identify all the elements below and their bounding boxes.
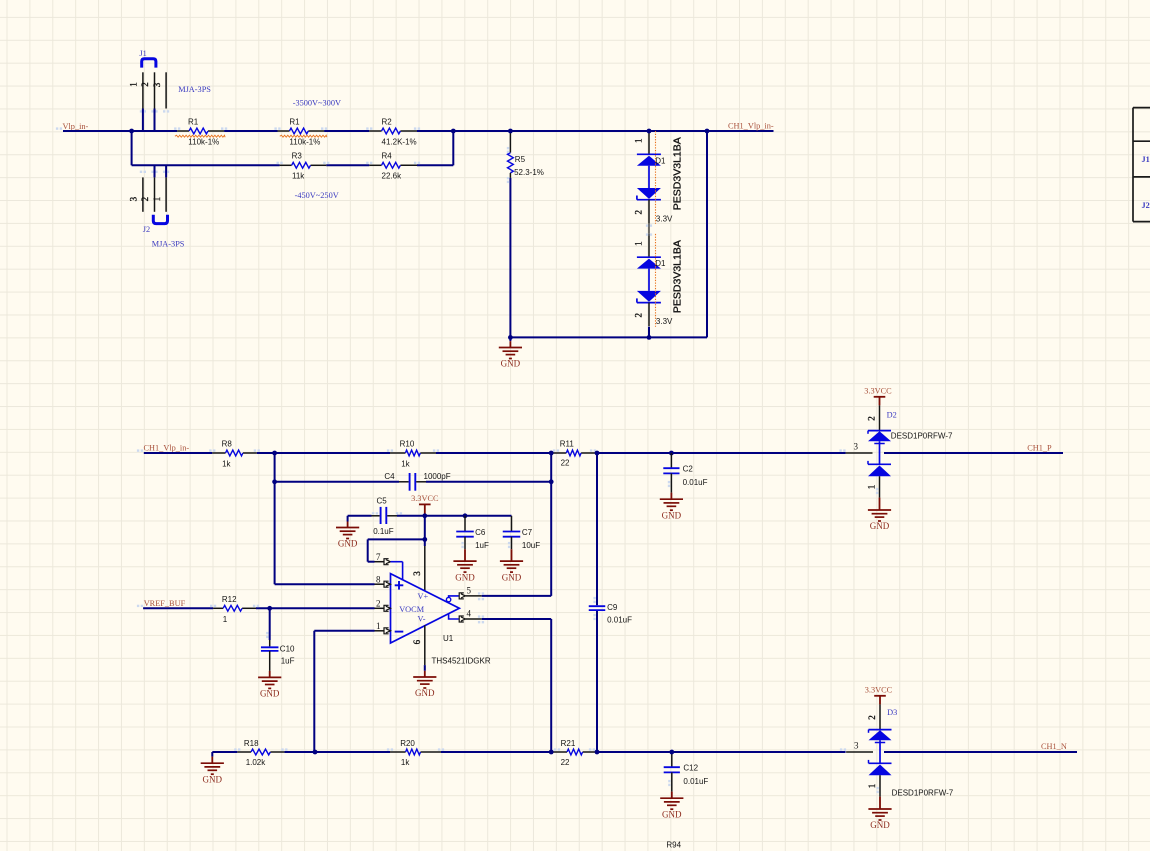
svg-text:8: 8 [376,575,381,585]
svg-text:GND: GND [260,689,280,699]
svg-text:R3: R3 [292,152,303,161]
svg-text:22.6k: 22.6k [382,172,403,181]
svg-text:D3: D3 [887,708,897,717]
svg-text:V+: V+ [418,592,429,601]
svg-text:THS4521IDGKR: THS4521IDGKR [432,657,491,666]
svg-text:1k: 1k [401,459,410,468]
svg-text:R8: R8 [222,439,233,448]
svg-text:R20: R20 [400,739,415,748]
svg-text:VOCM: VOCM [399,605,425,614]
svg-text:C10: C10 [280,645,295,654]
svg-text:R4: R4 [382,152,393,161]
svg-text:D1: D1 [655,259,666,268]
svg-text:C4: C4 [384,472,395,481]
svg-text:C5: C5 [377,497,388,506]
svg-text:R1: R1 [188,118,199,127]
svg-text:U1: U1 [443,634,454,643]
svg-text:41.2K-1%: 41.2K-1% [382,137,417,146]
svg-text:10uF: 10uF [522,541,540,550]
svg-text:R18: R18 [244,739,259,748]
svg-text:1: 1 [376,621,381,631]
svg-text:1: 1 [634,241,644,246]
svg-text:3: 3 [854,442,859,452]
svg-text:-3500V~300V: -3500V~300V [293,99,341,108]
svg-text:CH1_P: CH1_P [1027,443,1052,452]
svg-text:J1: J1 [139,49,146,58]
svg-text:2: 2 [376,599,381,609]
svg-text:R94: R94 [666,841,681,850]
svg-text:3.3VCC: 3.3VCC [411,494,439,503]
svg-text:MJA-3PS: MJA-3PS [178,85,211,94]
svg-text:GND: GND [662,510,682,520]
svg-text:3: 3 [129,196,139,201]
svg-text:11k: 11k [292,172,305,181]
svg-text:GND: GND [870,521,890,531]
svg-text:110k-1%: 110k-1% [188,137,219,146]
svg-text:22: 22 [561,459,570,468]
svg-text:6: 6 [412,639,422,644]
svg-text:VREF_BUF: VREF_BUF [144,599,186,608]
svg-text:C6: C6 [475,528,486,537]
svg-text:CH1_Vlp_in-: CH1_Vlp_in- [144,443,190,452]
svg-text:J1: J1 [1142,155,1150,164]
svg-text:1000pF: 1000pF [424,472,451,481]
svg-text:GND: GND [501,359,521,369]
svg-text:C7: C7 [522,528,533,537]
svg-text:Vlp_in-: Vlp_in- [63,122,89,131]
svg-text:C9: C9 [607,603,618,612]
svg-text:C12: C12 [683,764,698,773]
svg-text:3.3V: 3.3V [656,214,673,223]
svg-text:C2: C2 [683,465,694,474]
svg-text:GND: GND [415,688,435,698]
svg-text:1: 1 [867,784,877,789]
svg-text:3: 3 [412,571,422,576]
svg-text:CH1_Vlp_in-: CH1_Vlp_in- [728,121,774,130]
svg-text:MJA-3PS: MJA-3PS [152,239,185,248]
svg-text:1: 1 [223,615,228,624]
svg-text:J2: J2 [1142,201,1150,210]
svg-text:0.01uF: 0.01uF [607,615,632,624]
svg-text:1.02k: 1.02k [246,758,267,767]
svg-text:0.1uF: 0.1uF [373,527,394,536]
svg-text:22: 22 [561,758,570,767]
svg-text:0.01uF: 0.01uF [683,478,708,487]
svg-text:D2: D2 [887,411,897,420]
svg-text:1: 1 [867,485,877,490]
svg-text:D1: D1 [655,156,666,165]
svg-text:CH1_N: CH1_N [1041,742,1067,751]
svg-text:3.3VCC: 3.3VCC [864,387,892,396]
svg-text:7: 7 [376,552,381,562]
svg-text:3.3V: 3.3V [656,317,673,326]
svg-text:GND: GND [203,774,223,784]
svg-text:2: 2 [634,210,644,215]
svg-text:PESD3V3L1BA: PESD3V3L1BA [671,240,683,313]
svg-text:1uF: 1uF [281,657,295,666]
svg-text:R10: R10 [400,439,415,448]
svg-text:R2: R2 [382,118,393,127]
svg-text:2: 2 [140,197,150,202]
svg-text:1: 1 [152,197,162,202]
svg-text:R21: R21 [561,739,576,748]
svg-text:R12: R12 [222,595,237,604]
svg-text:DESD1P0RFW-7: DESD1P0RFW-7 [891,432,953,441]
svg-text:PESD3V3L1BA: PESD3V3L1BA [671,137,683,210]
svg-text:1k: 1k [222,459,231,468]
svg-text:1: 1 [129,82,139,87]
svg-text:R5: R5 [515,155,526,164]
svg-text:110k-1%: 110k-1% [289,137,320,146]
svg-text:GND: GND [502,572,522,582]
svg-text:GND: GND [455,572,475,582]
svg-text:5: 5 [467,585,472,595]
svg-text:4: 4 [467,608,472,618]
svg-text:2: 2 [634,313,644,318]
svg-text:R11: R11 [560,439,575,448]
svg-text:J2: J2 [143,225,150,234]
svg-text:52.3-1%: 52.3-1% [514,168,544,177]
svg-text:R1: R1 [289,118,300,127]
svg-text:2: 2 [867,715,877,720]
svg-text:GND: GND [662,809,682,819]
svg-text:1k: 1k [401,758,410,767]
svg-text:GND: GND [870,820,890,830]
svg-text:2: 2 [140,82,150,87]
svg-text:1uF: 1uF [475,541,489,550]
svg-text:0.01uF: 0.01uF [683,777,708,786]
svg-text:-450V~250V: -450V~250V [295,191,339,200]
svg-text:3: 3 [854,741,859,751]
svg-text:3.3VCC: 3.3VCC [865,686,893,695]
svg-text:2: 2 [867,416,877,421]
svg-text:DESD1P0RFW-7: DESD1P0RFW-7 [892,788,954,797]
svg-text:3: 3 [152,82,162,87]
svg-text:V-: V- [418,614,426,623]
svg-text:1: 1 [634,138,644,143]
svg-text:GND: GND [338,539,358,549]
